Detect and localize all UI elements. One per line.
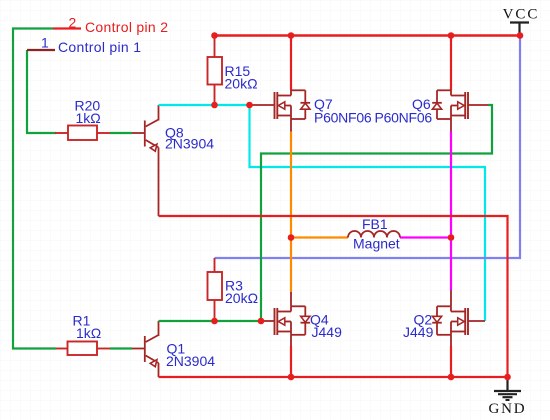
- node: rail GND: [504, 374, 511, 381]
- svg-text:1kΩ: 1kΩ: [76, 325, 101, 341]
- wire: red Q4 drain lead from orange: [290, 292, 292, 306]
- wire: green net Q1 collector / R3 bottom / Q4 gate: [159, 320, 262, 322]
- node: cyan R15 bottom: [211, 102, 218, 109]
- svg-text:Control pin 1: Control pin 1: [58, 39, 141, 55]
- wire: red Q2 source to bottom rail: [450, 335, 452, 346]
- resistor R20: [55, 98, 110, 141]
- svg-text:VCC: VCC: [503, 7, 540, 23]
- mosfet Q4 J449: [261, 306, 342, 340]
- label: Control pin 1: [41, 35, 141, 56]
- wire: red Q2 drain lead from magenta: [450, 290, 452, 306]
- wire: red Q6 drain drop: [450, 36, 452, 91]
- wire: cyan drop to lower run: [250, 105, 486, 321]
- wire: green net Control pin 1 to R20: [27, 50, 56, 133]
- wire: green net Q6 gate to Q4 gate / R3 bottom / Q1 collector: [261, 105, 492, 321]
- svg-text:2N3904: 2N3904: [166, 353, 215, 369]
- wire: orange FB1 left lead: [291, 236, 348, 238]
- svg-text:1: 1: [41, 35, 49, 51]
- node: rail Q2 source: [448, 374, 455, 381]
- node: rail Q7 drain: [288, 32, 295, 39]
- svg-text:20kΩ: 20kΩ: [225, 76, 258, 92]
- resistor R15: [208, 36, 258, 106]
- mosfet Q6 P60NF06: [375, 90, 489, 132]
- wire: cyan net Q8 collector / R15 / Q7 gate: [159, 104, 250, 106]
- wire: red top rail VCC: [215, 34, 521, 36]
- wire: red Q7 drain drop: [290, 36, 292, 91]
- wire: violet net VCC to R3 top: [215, 36, 521, 259]
- resistor R3: [208, 258, 259, 321]
- ground symbol GND: [489, 377, 527, 417]
- svg-text:2N3904: 2N3904: [165, 136, 214, 152]
- power flag VCC: [503, 7, 540, 36]
- svg-text:GND: GND: [489, 401, 527, 417]
- wire: red Q4 source to bottom rail: [290, 335, 292, 346]
- svg-text:2: 2: [69, 15, 77, 31]
- node: green R3 bottom: [211, 318, 218, 325]
- label: Control pin 2: [69, 15, 169, 36]
- transistor Q1 2N3904: [132, 321, 215, 377]
- wire: red stub Control pin 2: [53, 27, 81, 29]
- svg-text:J449: J449: [403, 324, 434, 340]
- ferrite bead FB1 Magnet: [348, 216, 400, 252]
- svg-text:1kΩ: 1kΩ: [76, 110, 101, 126]
- svg-text:P60NF06: P60NF06: [314, 110, 372, 126]
- mosfet Q7 P60NF06: [250, 90, 372, 132]
- node: FB1 left: [288, 234, 295, 241]
- node: FB1 right: [448, 234, 455, 241]
- wire: green R1 to Q1 base: [110, 347, 132, 349]
- svg-text:FB1: FB1: [362, 216, 388, 232]
- node: rail Q4 source: [288, 374, 295, 381]
- wire: orange Q7 source to FB1 and Q4 drain: [290, 132, 292, 293]
- resistor R1: [56, 313, 110, 356]
- node: rail Q6 drain: [448, 32, 455, 39]
- node: green Q4 gate: [258, 318, 265, 325]
- svg-text:P60NF06: P60NF06: [375, 110, 433, 126]
- svg-text:Magnet: Magnet: [353, 236, 400, 252]
- wire: green net Control pin 2 to R1: [13, 29, 56, 349]
- node: rail VCC: [517, 32, 524, 39]
- transistor Q8 2N3904: [132, 105, 214, 216]
- node: cyan corner Q7 gate: [246, 102, 253, 109]
- wire: red Q8 emitter to GND rail: [159, 216, 508, 377]
- wire: magenta Q6 source to FB1 and Q2 drain: [450, 132, 452, 291]
- wire: green R20 to Q8 base: [110, 132, 132, 134]
- svg-text:Control pin 2: Control pin 2: [85, 19, 168, 35]
- wire: red bottom GND rail: [159, 376, 508, 378]
- svg-text:J449: J449: [312, 324, 343, 340]
- wire: dark red stub Control pin 1: [27, 49, 55, 51]
- mosfet Q2 J449: [403, 306, 485, 340]
- wire: magenta FB1 right lead: [400, 236, 451, 238]
- svg-text:20kΩ: 20kΩ: [225, 290, 258, 306]
- node: rail R15: [211, 32, 218, 39]
